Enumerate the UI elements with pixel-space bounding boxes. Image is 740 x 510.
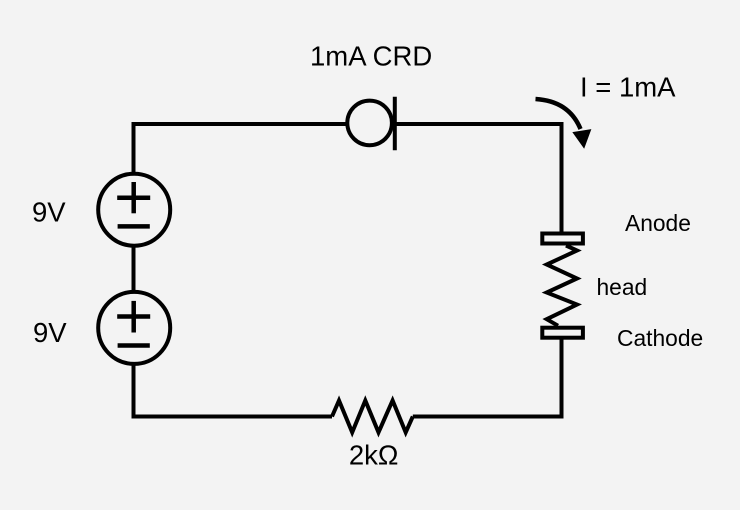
current arrow — [536, 99, 581, 129]
svg-text:Anode: Anode — [625, 210, 691, 236]
current arrowhead — [573, 130, 590, 148]
V1 minus sign — [118, 224, 150, 229]
voltage source V1: circle — [98, 174, 170, 246]
svg-text:1mA CRD: 1mA CRD — [310, 40, 432, 71]
wire: right wire lower part, bottom-right corner, bottom wire right part — [413, 338, 562, 417]
svg-text:head: head — [597, 274, 648, 300]
LED head: cathode terminal rect — [542, 328, 583, 338]
V2 minus sign — [118, 343, 150, 348]
voltage source V2: circle — [98, 292, 170, 364]
V1 plus sign — [117, 195, 150, 200]
svg-text:9V: 9V — [32, 196, 66, 227]
CRD U1: circle — [347, 101, 392, 146]
svg-text:Cathode: Cathode — [617, 325, 703, 351]
svg-text:9V: 9V — [33, 317, 67, 348]
resistor R1: zigzag — [332, 401, 413, 433]
V2 plus sign — [117, 314, 150, 319]
svg-text:2kΩ: 2kΩ — [349, 439, 399, 470]
svg-text:I = 1mA: I = 1mA — [580, 72, 676, 103]
wire: top wire right of CRD bar, top-right corner, right wire upper part — [395, 124, 562, 234]
LED head: anode terminal rect — [542, 234, 583, 244]
wire: top-left corner, left wire, bottom-left corner, bottom wire left part — [134, 124, 347, 417]
LED head: filament zigzag — [547, 246, 577, 326]
CRD U1: cathode bar — [393, 97, 397, 150]
